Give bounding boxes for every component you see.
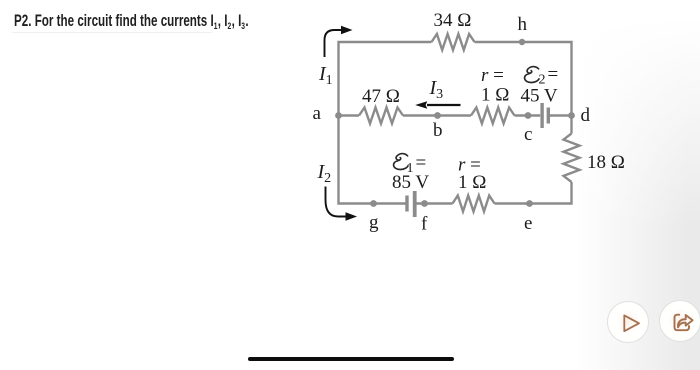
svg-text:47 Ω: 47 Ω — [362, 86, 400, 107]
svg-text:a: a — [313, 103, 322, 124]
svg-text:I3: I3 — [429, 77, 444, 102]
svg-text:b: b — [433, 120, 443, 141]
svg-text:34 Ω: 34 Ω — [434, 10, 472, 31]
svg-text:r =: r = — [481, 65, 504, 86]
svg-text:85 V: 85 V — [392, 172, 429, 193]
svg-text:18 Ω: 18 Ω — [587, 152, 625, 173]
svg-text:g: g — [369, 212, 379, 233]
svg-text:d: d — [581, 105, 591, 126]
svg-text:=: = — [416, 153, 427, 174]
svg-text:c: c — [524, 124, 532, 145]
svg-text:e: e — [524, 213, 532, 234]
svg-text:1 Ω: 1 Ω — [481, 85, 509, 106]
svg-text:f: f — [421, 214, 428, 235]
svg-text:I1: I1 — [318, 63, 333, 88]
svg-text:h: h — [518, 14, 528, 35]
svg-text:=: = — [548, 64, 559, 85]
svg-text:I2: I2 — [317, 161, 332, 186]
svg-text:1 Ω: 1 Ω — [458, 172, 486, 193]
svg-text:45 V: 45 V — [521, 86, 558, 107]
